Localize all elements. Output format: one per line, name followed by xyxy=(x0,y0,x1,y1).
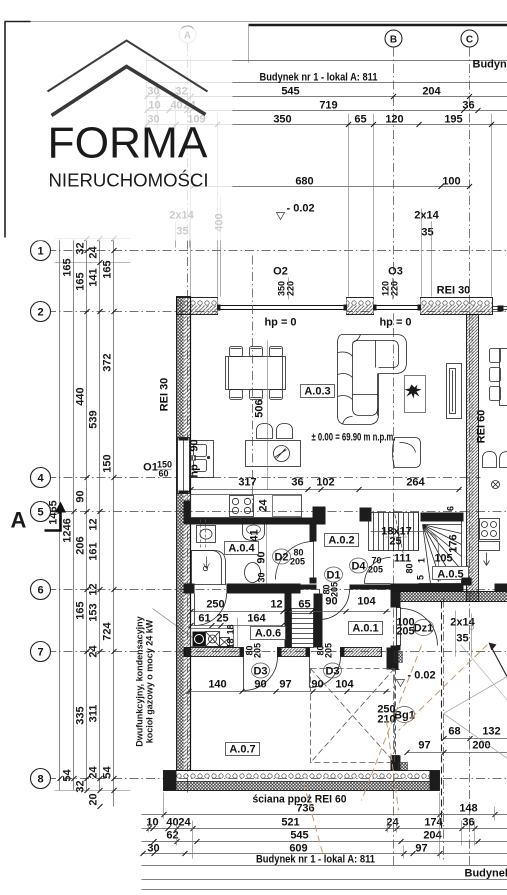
svg-text:205: 205 xyxy=(330,582,340,597)
bottom exterior wall xyxy=(164,771,440,782)
grid bubble C xyxy=(461,30,478,47)
logo roof thin chevron xyxy=(48,41,208,92)
left rotated dimension labels xyxy=(48,242,114,805)
svg-text:18: 18 xyxy=(226,624,236,634)
svg-text:B: B xyxy=(390,35,397,46)
row6 wall piece a xyxy=(189,584,195,594)
row5 wall end block xyxy=(313,507,326,525)
grid bubble 6 xyxy=(31,580,51,600)
svg-text:724: 724 xyxy=(102,621,114,640)
extension lines bottom block xyxy=(163,793,165,819)
svg-text:150: 150 xyxy=(102,454,114,472)
closet shelves xyxy=(292,609,314,648)
svg-text:8: 8 xyxy=(37,774,43,786)
grid bubble A xyxy=(179,26,196,43)
grid row 5 / section line xyxy=(31,511,507,513)
dashed service line x=441 xyxy=(441,602,443,833)
gate Bg1 label xyxy=(395,707,415,723)
grid column A xyxy=(187,43,189,301)
svg-text:kocioł gazowy o mocy 24 kW: kocioł gazowy o mocy 24 kW xyxy=(145,619,155,743)
svg-text:A: A xyxy=(11,508,27,533)
dimension line row 350/65/120/195 xyxy=(146,124,507,126)
svg-text:- 0.02: - 0.02 xyxy=(287,203,315,215)
left dimension chain line segments c xyxy=(113,239,115,807)
svg-text:A.0.4: A.0.4 xyxy=(228,543,255,555)
grid column B xyxy=(393,48,395,866)
grid bubble B xyxy=(385,30,402,47)
svg-text:32: 32 xyxy=(75,780,87,792)
svg-text:736: 736 xyxy=(296,803,314,815)
svg-text:205: 205 xyxy=(324,643,334,658)
room label A.0.1 xyxy=(349,622,383,635)
svg-text:C: C xyxy=(466,35,473,46)
svg-text:205: 205 xyxy=(396,626,414,638)
svg-text:200: 200 xyxy=(472,740,490,752)
wall A.0.6 / A.0.1 xyxy=(285,594,292,648)
svg-text:1: 1 xyxy=(37,246,43,258)
svg-text:165: 165 xyxy=(75,601,87,619)
svg-text:205: 205 xyxy=(253,643,263,658)
dimension line row lokal A bottom xyxy=(142,865,507,867)
left dimension ticks xyxy=(58,236,117,809)
svg-text:A.0.5: A.0.5 xyxy=(437,569,463,581)
corridor wall xyxy=(314,594,323,648)
svg-text:24: 24 xyxy=(178,817,191,829)
grid row 7 xyxy=(31,651,507,653)
page top grey line xyxy=(5,21,507,23)
svg-text:140: 140 xyxy=(208,679,226,691)
svg-text:97: 97 xyxy=(418,740,430,752)
window O1 xyxy=(178,438,190,494)
svg-text:A.0.6: A.0.6 xyxy=(255,628,281,640)
svg-text:1246: 1246 xyxy=(62,518,74,542)
room label A.0.5 xyxy=(433,567,469,580)
cooktop xyxy=(230,496,254,517)
room label A.0.4 xyxy=(225,542,259,555)
stair walk line with arrow xyxy=(371,532,439,577)
svg-text:32: 32 xyxy=(75,242,87,254)
svg-text:204: 204 xyxy=(422,86,441,98)
svg-text:545: 545 xyxy=(290,830,308,842)
svg-text:hp = 90: hp = 90 xyxy=(189,439,201,477)
svg-text:100: 100 xyxy=(442,176,460,188)
plumbing dashed riser xyxy=(201,520,206,550)
svg-text:205: 205 xyxy=(290,557,305,567)
svg-text:680: 680 xyxy=(295,176,313,188)
svg-text:141: 141 xyxy=(88,268,100,286)
row7 corner block xyxy=(387,648,399,670)
svg-text:54: 54 xyxy=(102,766,114,779)
svg-text:195: 195 xyxy=(444,114,462,126)
entry arrow xyxy=(492,648,507,678)
svg-text:20: 20 xyxy=(88,793,100,805)
svg-text:D1: D1 xyxy=(326,570,340,582)
svg-text:165: 165 xyxy=(62,258,74,276)
neighbor armchairs xyxy=(483,452,497,468)
row5 wall xyxy=(191,518,326,525)
room label A.0.2 xyxy=(325,534,359,547)
shower xyxy=(192,551,226,585)
svg-text:165: 165 xyxy=(75,272,87,290)
svg-text:41: 41 xyxy=(249,529,261,541)
svg-text:12: 12 xyxy=(270,599,282,611)
svg-text:18: 18 xyxy=(226,638,236,648)
bottom edge line xyxy=(142,889,507,891)
svg-text:105: 105 xyxy=(434,553,452,565)
svg-text:NIERUCHOMOŚCI: NIERUCHOMOŚCI xyxy=(49,170,209,191)
bottom wall left cap xyxy=(164,771,177,791)
bottom wall right cap xyxy=(430,771,440,791)
svg-text:30: 30 xyxy=(257,572,267,582)
svg-text:80: 80 xyxy=(405,563,415,573)
svg-text:220: 220 xyxy=(286,281,296,296)
svg-text:REI 30: REI 30 xyxy=(437,285,471,297)
garage clearance box xyxy=(311,669,395,763)
row7 wall piece c xyxy=(341,648,382,657)
svg-text:165: 165 xyxy=(102,260,114,278)
door D1 leaf+arc xyxy=(320,590,350,620)
left dimension chain line 1246 xyxy=(73,239,75,791)
garage dim row 140/90/97/90/104 xyxy=(189,691,391,693)
top wall pier left xyxy=(177,298,218,306)
svg-text:372: 372 xyxy=(102,353,114,371)
svg-text:148: 148 xyxy=(459,803,477,815)
svg-text:Budynek nr 1 - lokal A: 811: Budynek nr 1 - lokal A: 811 xyxy=(260,72,378,84)
row7 wall piece a xyxy=(185,648,244,657)
dryer xyxy=(220,638,230,647)
armchair pair xyxy=(257,424,273,439)
svg-text:5: 5 xyxy=(416,575,426,580)
dimension line row building label xyxy=(146,60,507,62)
svg-text:Dz1: Dz1 xyxy=(414,623,434,635)
dimension line row budynek bottom xyxy=(142,879,507,881)
svg-text:O3: O3 xyxy=(388,266,403,278)
dimension line row 545/204 bottom xyxy=(142,841,507,843)
door D3 left leaf+arc xyxy=(244,657,278,691)
svg-text:2x14: 2x14 xyxy=(414,210,439,222)
svg-text:24: 24 xyxy=(88,766,100,779)
row6 wall piece b xyxy=(227,584,301,594)
svg-text:205: 205 xyxy=(368,565,383,575)
svg-text:264: 264 xyxy=(406,477,425,489)
svg-text:36: 36 xyxy=(462,100,474,112)
window O2 xyxy=(218,299,347,314)
door D4 leaf+arc xyxy=(365,558,391,584)
row7 wall piece b xyxy=(278,648,310,657)
window O3 xyxy=(374,299,421,314)
boiler xyxy=(193,632,206,647)
extension lines top block xyxy=(146,57,148,129)
garage gate Bg1 jambs xyxy=(392,669,400,671)
TV board xyxy=(447,364,462,419)
svg-text:132: 132 xyxy=(482,726,500,738)
dimension ticks bottom block xyxy=(141,812,498,856)
dimension line row 545/204 xyxy=(146,96,507,98)
svg-text:719: 719 xyxy=(319,100,337,112)
svg-text:1: 1 xyxy=(417,558,427,563)
left dimension chain line segments b xyxy=(99,239,101,791)
logo roof thick chevron xyxy=(52,67,206,116)
svg-text:545: 545 xyxy=(281,86,299,98)
grid row 1 xyxy=(31,250,507,252)
grid bubble 5 xyxy=(31,502,51,522)
living room dim row 317/36/102/264 xyxy=(191,489,462,491)
door D3 left label xyxy=(252,663,270,678)
door D2 label xyxy=(273,549,291,564)
neighbor plant xyxy=(492,481,500,489)
svg-text:220: 220 xyxy=(390,281,400,296)
dining table xyxy=(226,357,286,390)
grid bubble 8 xyxy=(31,769,51,789)
svg-text:Budynek: Budynek xyxy=(473,59,507,71)
dimension line row 609/97 xyxy=(142,853,507,855)
svg-text:104: 104 xyxy=(335,679,354,691)
svg-text:153: 153 xyxy=(88,603,100,621)
kitchen sink unit xyxy=(191,441,214,478)
corner sofa xyxy=(338,335,407,425)
svg-text:2x14: 2x14 xyxy=(450,617,475,629)
svg-text:25: 25 xyxy=(216,613,228,625)
svg-text:174: 174 xyxy=(424,817,443,829)
svg-text:FORMA: FORMA xyxy=(48,119,209,168)
row6 wall piece c xyxy=(350,585,391,590)
toilet xyxy=(245,563,261,583)
grid column C xyxy=(469,48,471,866)
garage right wall below door xyxy=(391,646,401,651)
grid row 4 xyxy=(31,477,481,479)
plant xyxy=(405,385,422,399)
grid bubble 7 xyxy=(31,642,51,662)
grid bubble 4 xyxy=(31,468,51,488)
svg-text:176: 176 xyxy=(448,534,460,552)
step hatch right of wall xyxy=(399,763,408,771)
svg-text:30: 30 xyxy=(147,843,159,855)
svg-text:24: 24 xyxy=(88,645,100,658)
grid row 2 xyxy=(31,311,507,313)
svg-text:A.0.7: A.0.7 xyxy=(229,744,255,756)
left dimension chain line segments a xyxy=(86,239,88,791)
svg-text:104: 104 xyxy=(357,596,376,608)
right dim row 68/132 xyxy=(444,738,507,740)
svg-text:521: 521 xyxy=(281,817,299,829)
svg-text:A.0.3: A.0.3 xyxy=(304,386,330,398)
dimension ticks top block xyxy=(145,94,495,189)
top building edge thick line xyxy=(249,24,507,27)
reference line x=443 xyxy=(443,599,445,861)
gate swing tan dashed lines xyxy=(399,645,488,731)
svg-text:97: 97 xyxy=(279,679,291,691)
right dim row 97/200 xyxy=(407,752,507,754)
stair pier xyxy=(360,508,372,522)
party wall REI60 xyxy=(467,315,479,602)
svg-text:Budynek: Budynek xyxy=(465,868,507,880)
svg-text:111: 111 xyxy=(394,553,411,565)
stair top wall xyxy=(421,513,464,522)
room label A.0.3 xyxy=(301,385,335,398)
bathroom right wall xyxy=(310,525,317,542)
logo translucent plate xyxy=(9,29,233,241)
svg-text:D3: D3 xyxy=(253,666,267,678)
svg-text:506: 506 xyxy=(254,399,266,417)
svg-text:4: 4 xyxy=(37,473,44,485)
svg-text:5: 5 xyxy=(37,507,43,519)
svg-text:24: 24 xyxy=(386,817,399,829)
neighbor arrow xyxy=(484,553,490,566)
svg-text:± 0.00 = 69.90 m n.p.m.: ± 0.00 = 69.90 m n.p.m. xyxy=(312,432,396,444)
top wall REI30 segment xyxy=(421,298,493,306)
coffee table xyxy=(246,441,301,467)
svg-text:164: 164 xyxy=(247,613,266,625)
A.0.6 counter outline xyxy=(191,629,234,647)
door D4 label xyxy=(350,558,368,573)
table extension line xyxy=(267,341,269,490)
straight stair flight xyxy=(369,513,419,551)
svg-text:90: 90 xyxy=(311,679,323,691)
A.0.6 dim row 61/25/164 xyxy=(191,625,283,627)
neighbor table xyxy=(500,349,507,406)
svg-text:hp = 0: hp = 0 xyxy=(379,317,411,329)
svg-text:90: 90 xyxy=(75,490,87,502)
grid row 6 xyxy=(31,589,507,591)
kitchen axis dash line xyxy=(252,256,254,515)
svg-text:O2: O2 xyxy=(273,266,288,278)
fridge xyxy=(273,496,302,517)
svg-text:24: 24 xyxy=(258,499,270,512)
dimension line row 736/148 xyxy=(142,814,507,816)
room label A.0.7 xyxy=(226,743,260,756)
door D3 right leaf+arc xyxy=(310,657,341,688)
neighbor cooktop xyxy=(480,519,500,540)
svg-text:90: 90 xyxy=(254,679,266,691)
svg-text:Budynek nr 1 - lokal A: 811: Budynek nr 1 - lokal A: 811 xyxy=(256,854,375,866)
svg-text:36: 36 xyxy=(291,477,303,489)
svg-text:102: 102 xyxy=(316,477,334,489)
svg-text:6: 6 xyxy=(37,585,43,597)
left chain end horizontals xyxy=(55,238,131,240)
svg-text:161: 161 xyxy=(88,542,100,560)
svg-text:68: 68 xyxy=(448,726,460,738)
garage right wall bottom piece xyxy=(391,756,401,771)
svg-text:D3: D3 xyxy=(325,666,339,678)
washbasin xyxy=(243,525,265,541)
svg-text:120: 120 xyxy=(385,114,403,126)
entrance door Dz1 label xyxy=(414,620,434,636)
left exterior wall xyxy=(177,297,184,771)
dining chairs top xyxy=(230,347,243,357)
svg-text:539: 539 xyxy=(88,410,100,428)
grid bubble 2 xyxy=(31,302,51,322)
dimension line row 719/36 xyxy=(146,110,507,112)
svg-text:hp = 0: hp = 0 xyxy=(264,317,296,329)
curved cabinet xyxy=(393,438,421,468)
bath cabinet xyxy=(197,526,216,543)
svg-text:A.0.2: A.0.2 xyxy=(328,535,354,547)
wall joints on left wall xyxy=(184,501,191,525)
entrance door Dz1 leaf+arc xyxy=(401,609,438,646)
svg-text:250: 250 xyxy=(206,599,224,611)
svg-text:O1: O1 xyxy=(143,462,158,474)
svg-text:D2: D2 xyxy=(274,552,288,564)
svg-text:Bg1: Bg1 xyxy=(394,710,415,722)
svg-text:440: 440 xyxy=(75,387,87,405)
door D2 leaf+arc xyxy=(276,542,314,580)
neighbor dining chairs xyxy=(490,349,501,363)
dimension line row 521 xyxy=(142,828,507,830)
neighbor window right of REI30 wall xyxy=(493,306,507,308)
svg-text:2: 2 xyxy=(37,307,43,319)
svg-text:97: 97 xyxy=(415,843,427,855)
garage right wall upper xyxy=(391,592,401,608)
svg-text:REI 30: REI 30 xyxy=(159,378,171,412)
svg-text:35: 35 xyxy=(456,633,468,645)
door D3 right label xyxy=(324,663,342,678)
svg-text:335: 335 xyxy=(75,706,87,724)
left dimension chain line 1465 xyxy=(59,239,61,791)
hall dim row 250/12/65/90/104 xyxy=(191,611,391,613)
svg-text:206: 206 xyxy=(75,536,87,554)
top wall pier middle xyxy=(347,298,374,306)
svg-text:6: 6 xyxy=(446,506,456,511)
svg-text:60: 60 xyxy=(158,469,168,479)
winder steps fan xyxy=(419,513,462,584)
svg-text:7: 7 xyxy=(37,647,43,659)
back wall bottom of hall xyxy=(391,584,464,592)
svg-text:311: 311 xyxy=(88,705,100,723)
svg-text:54: 54 xyxy=(62,769,74,782)
neighbor wall corner xyxy=(495,584,507,592)
room label A.0.6 xyxy=(251,627,286,640)
page corner left border xyxy=(5,21,31,23)
grey swing lines xyxy=(444,677,507,714)
door D1 label xyxy=(325,567,343,582)
svg-text:A.0.1: A.0.1 xyxy=(352,623,378,635)
svg-text:350: 350 xyxy=(273,114,291,126)
svg-text:REI 60: REI 60 xyxy=(476,410,488,444)
grid row 8 xyxy=(31,778,507,780)
svg-text:61: 61 xyxy=(198,613,210,625)
svg-text:12: 12 xyxy=(88,518,100,530)
door to bathroom leaf+arc xyxy=(195,594,227,626)
grid bubble 1 xyxy=(31,241,51,261)
svg-text:Dwufunkcyjny, kondensacyjny: Dwufunkcyjny, kondensacyjny xyxy=(135,616,145,746)
svg-text:65: 65 xyxy=(354,114,366,126)
svg-text:D4: D4 xyxy=(351,561,366,573)
dimension line row lokal A xyxy=(146,82,507,84)
svg-text:65: 65 xyxy=(298,599,310,611)
svg-text:24: 24 xyxy=(88,246,100,259)
dining chairs bottom xyxy=(230,390,243,400)
dimension line row 680/100 xyxy=(191,186,469,188)
stair break line xyxy=(394,509,404,555)
plant box xyxy=(405,376,426,413)
svg-text:12: 12 xyxy=(88,583,100,595)
kitchen counter xyxy=(191,495,302,518)
svg-text:317: 317 xyxy=(238,477,256,489)
washing machine xyxy=(206,632,220,647)
